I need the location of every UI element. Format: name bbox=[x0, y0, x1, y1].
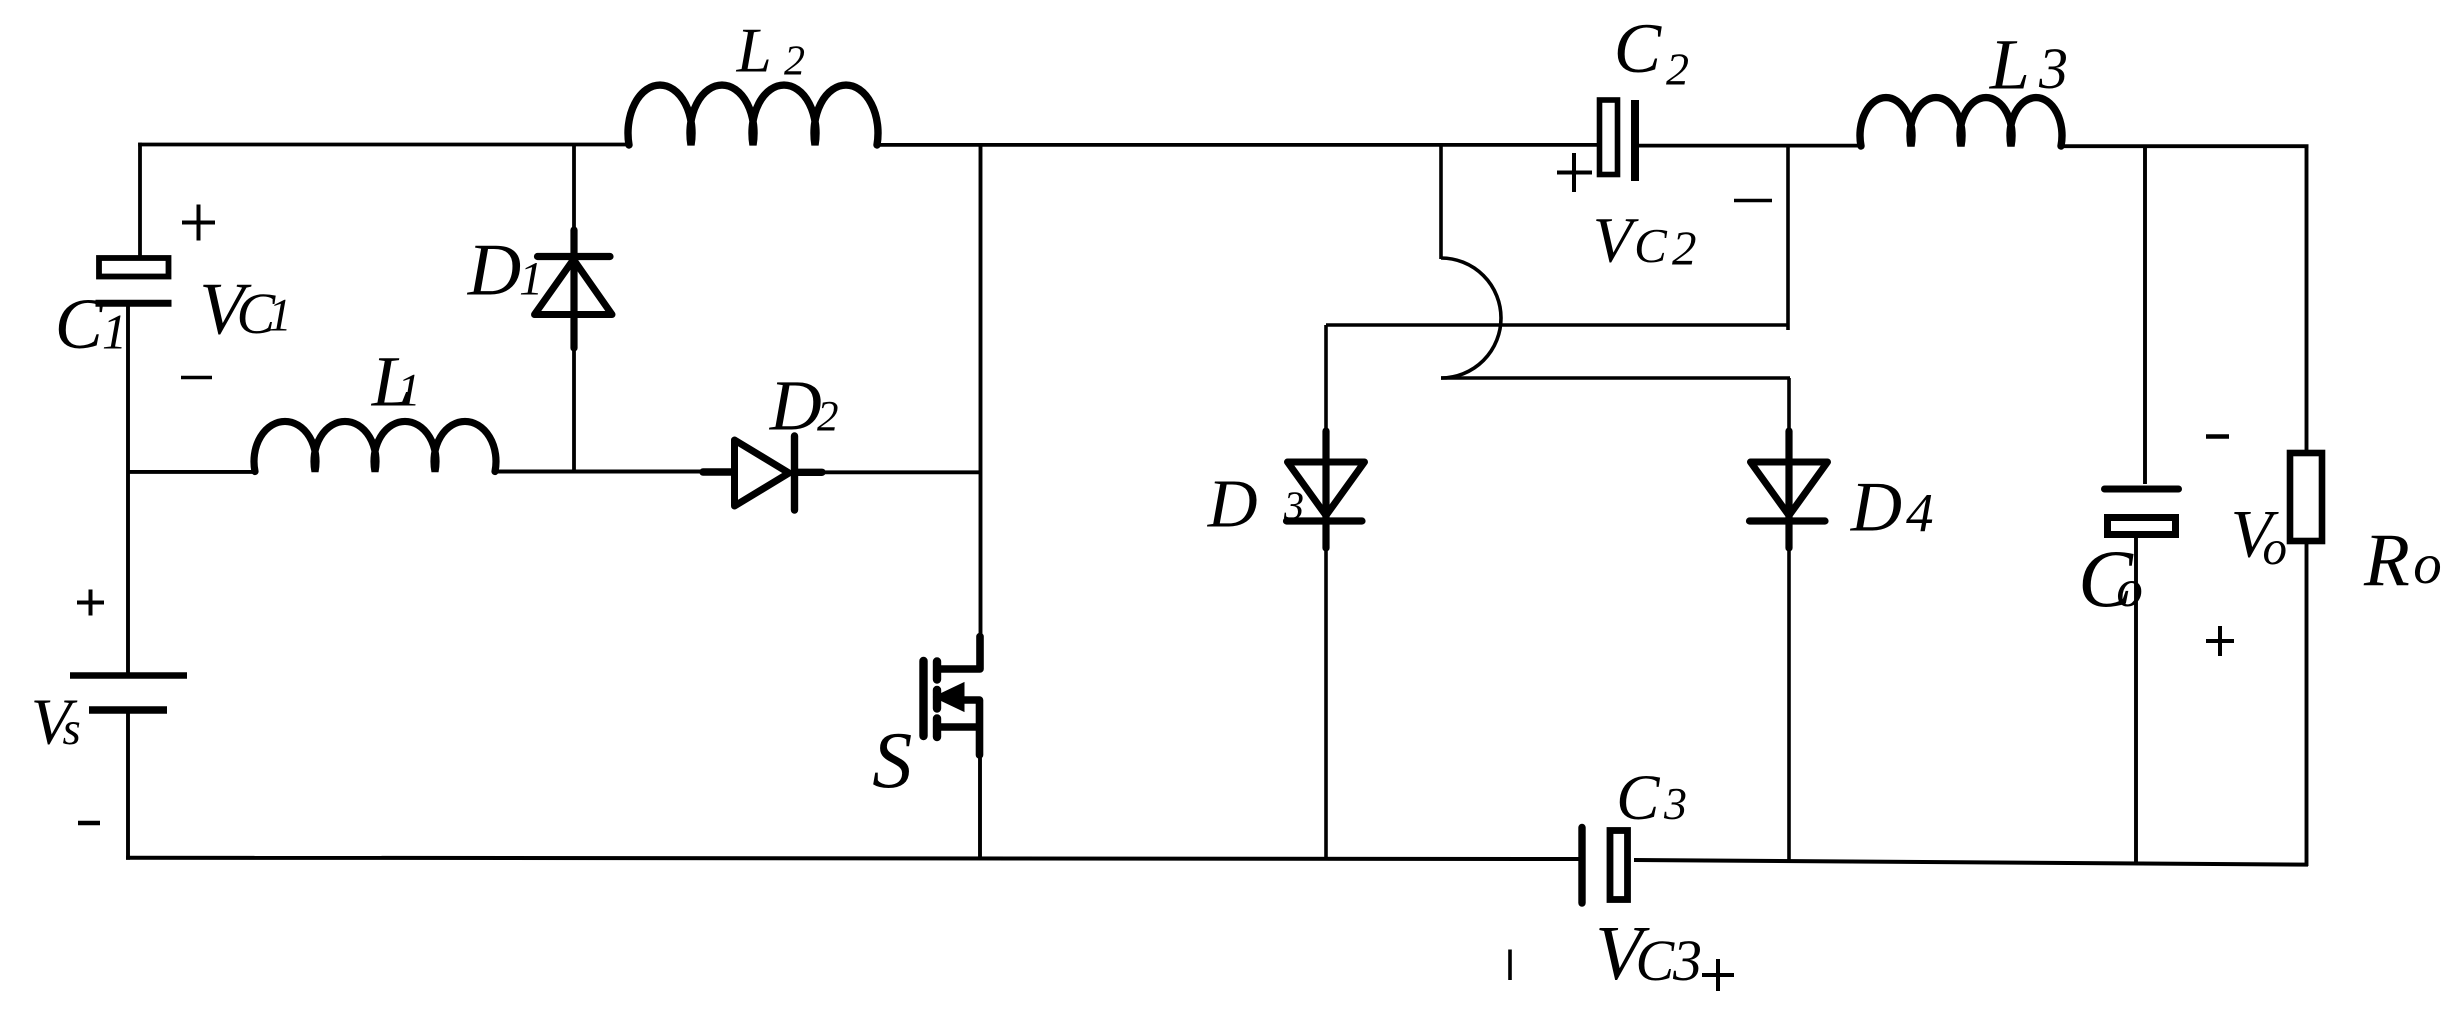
wire source to bottom rail bbox=[978, 753, 982, 859]
capacitor C2 left plate bbox=[1600, 100, 1618, 175]
wire D1 upper (top rail to diode) bbox=[572, 145, 576, 233]
wire top rail segment D (L3 to Ro corner) bbox=[2061, 144, 2309, 148]
label + (C2) bbox=[1557, 153, 1592, 192]
MOSFET S channel stub middle bbox=[933, 690, 941, 709]
capacitor C3 right plate bbox=[1610, 831, 1628, 900]
capacitor C2 right plate bbox=[1631, 100, 1639, 181]
svg-text:C: C bbox=[1616, 762, 1660, 834]
svg-text:3: 3 bbox=[1663, 778, 1687, 829]
wire net-A horizontal to D4 bbox=[1441, 376, 1790, 380]
wire top rail segment B (L2 to C2) bbox=[877, 143, 1598, 147]
diode D1 cathode bar bbox=[538, 253, 611, 260]
MOSFET S bottom contact bbox=[937, 723, 979, 731]
wire D4 lower to bottom rail bbox=[1787, 546, 1791, 861]
svg-text:o: o bbox=[2263, 520, 2288, 575]
MOSFET S channel stub top bbox=[933, 662, 941, 680]
svg-text:L: L bbox=[1989, 25, 2030, 105]
wire Ro lower to bottom rail bbox=[2305, 541, 2309, 866]
wire L1 to D2 bbox=[495, 470, 703, 474]
diode D1 triangle bbox=[535, 260, 613, 315]
label − (C1) bbox=[181, 376, 212, 379]
wire Co lower to bottom rail bbox=[2134, 536, 2138, 864]
capacitor Co top plate bbox=[2105, 486, 2179, 493]
svg-text:1: 1 bbox=[268, 290, 292, 342]
wire D4 upper bbox=[1787, 378, 1791, 433]
svg-text:C: C bbox=[1636, 928, 1676, 993]
svg-text:C: C bbox=[1634, 218, 1668, 273]
wire left rail C1 to battery bbox=[126, 303, 130, 673]
svg-text:D: D bbox=[467, 230, 521, 312]
diode D1 lead through bbox=[570, 230, 577, 348]
label | (VC3 minus tick) bbox=[1508, 950, 1512, 981]
svg-text:3: 3 bbox=[1672, 928, 1702, 993]
wire top rail segment A (top-left corner to L2) bbox=[138, 143, 629, 147]
svg-text:R: R bbox=[2363, 519, 2410, 602]
label + (VC3) bbox=[1702, 959, 1734, 991]
svg-text:D: D bbox=[769, 366, 822, 446]
diode D3 triangle bbox=[1288, 462, 1365, 516]
svg-text:S: S bbox=[872, 717, 912, 805]
svg-text:C: C bbox=[1614, 10, 1663, 88]
wire top rail segment C (C2 to L3) bbox=[1639, 144, 1861, 148]
wire bottom rail (left of C3) bbox=[126, 858, 1579, 859]
MOSFET S channel stub bottom bbox=[933, 719, 941, 738]
svg-text:C: C bbox=[55, 284, 104, 364]
resistor Ro body bbox=[2290, 453, 2322, 541]
svg-text:2: 2 bbox=[817, 393, 839, 440]
label − (Vs) bbox=[78, 821, 100, 826]
diode D2 triangle bbox=[735, 440, 790, 506]
wire net-B horizontal (D3 to vertical) bbox=[1326, 323, 1788, 327]
wire Co upper (top rail to plate) bbox=[2143, 146, 2147, 484]
svg-text:D: D bbox=[1850, 469, 1902, 547]
diode D3 cathode bar bbox=[1287, 517, 1363, 524]
wire D2 to drain rail bbox=[822, 470, 981, 474]
MOSFET S source bend bbox=[959, 700, 980, 755]
diode D2 cathode bar bbox=[791, 436, 798, 510]
capacitor Co bottom plate bbox=[2108, 518, 2176, 535]
svg-text:1: 1 bbox=[397, 365, 421, 417]
inductor L2 bbox=[628, 85, 878, 145]
svg-text:1: 1 bbox=[102, 304, 127, 360]
diode D2 anode lead bbox=[703, 468, 732, 475]
wire D3 lower to bottom rail bbox=[1324, 546, 1328, 859]
wire battery to bottom rail bbox=[126, 713, 130, 860]
wire D1 lower (diode to L1-D2 wire) bbox=[572, 345, 576, 472]
label + (Vs) bbox=[77, 590, 104, 616]
wire D3 upper bbox=[1324, 325, 1328, 433]
capacitor C1 top plate bbox=[99, 258, 169, 277]
label − (C2) bbox=[1734, 199, 1772, 202]
wire net-B vertical (top rail to cross wire) bbox=[1786, 146, 1790, 331]
svg-text:L: L bbox=[736, 16, 772, 86]
svg-text:4: 4 bbox=[1906, 483, 1934, 544]
label + (C1) bbox=[182, 205, 215, 241]
svg-text:2: 2 bbox=[1666, 44, 1689, 95]
svg-text:o: o bbox=[2413, 533, 2442, 596]
diode D4 triangle bbox=[1751, 462, 1828, 516]
diode D3 lead through bbox=[1322, 431, 1329, 548]
diode D4 cathode bar bbox=[1750, 517, 1826, 524]
svg-text:2: 2 bbox=[1672, 221, 1697, 276]
svg-text:2: 2 bbox=[784, 38, 805, 84]
MOSFET S gate bar bbox=[919, 661, 927, 736]
wire L1 left lead bbox=[128, 470, 256, 474]
battery Vs long plate bbox=[70, 672, 187, 679]
label + (Vo) bbox=[2206, 626, 2234, 656]
wire net-A vertical (top rail to hop) bbox=[1439, 145, 1443, 259]
svg-text:D: D bbox=[1207, 466, 1258, 542]
svg-text:3: 3 bbox=[2038, 36, 2068, 101]
capacitor C1 bottom plate bbox=[96, 300, 172, 307]
MOSFET S body arrow bbox=[935, 684, 964, 711]
wire bottom rail (right of C3) bbox=[1634, 860, 2308, 865]
svg-text:1: 1 bbox=[519, 253, 543, 306]
wire hop (crossing arc) bbox=[1441, 258, 1501, 378]
inductor L3 bbox=[1860, 98, 2062, 146]
svg-text:s: s bbox=[63, 703, 81, 755]
capacitor C3 left plate bbox=[1578, 828, 1585, 904]
svg-text:o: o bbox=[2116, 560, 2143, 618]
wire Ro upper (corner to resistor) bbox=[2305, 145, 2309, 453]
wire top-left corner drop to C1 bbox=[138, 143, 142, 256]
MOSFET S drain bend bbox=[937, 637, 980, 670]
svg-text:3: 3 bbox=[1283, 483, 1304, 528]
inductor L1 bbox=[254, 421, 496, 471]
label − (Vo) bbox=[2206, 434, 2229, 439]
diode D4 lead through bbox=[1785, 431, 1792, 548]
battery Vs short plate bbox=[89, 706, 167, 713]
svg-text:V: V bbox=[1593, 204, 1639, 276]
diode D2 cathode lead bbox=[795, 469, 823, 476]
wire drain vertical (top rail to MOSFET) bbox=[979, 145, 983, 639]
